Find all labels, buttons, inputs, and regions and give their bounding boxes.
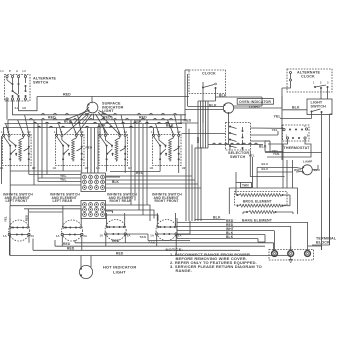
svg-text:2A: 2A	[31, 234, 35, 238]
svg-text:BLK: BLK	[226, 235, 234, 239]
svg-text:H1: H1	[53, 166, 57, 170]
svg-text:H2: H2	[23, 106, 27, 110]
svg-text:BLK: BLK	[259, 145, 267, 149]
svg-text:RED: RED	[48, 116, 56, 120]
svg-text:YEL: YEL	[274, 115, 282, 119]
svg-text:LEFT REAR: LEFT REAR	[53, 199, 73, 203]
svg-text:RIGHT FRONT: RIGHT FRONT	[155, 199, 179, 203]
svg-text:H2: H2	[128, 166, 132, 170]
svg-text:H2: H2	[85, 166, 89, 170]
svg-text:1A: 1A	[150, 233, 154, 237]
svg-text:L1: L1	[54, 130, 58, 134]
svg-text:H1: H1	[150, 166, 154, 170]
svg-text:BLK: BLK	[134, 120, 142, 124]
svg-text:BLU: BLU	[262, 167, 269, 171]
svg-text:THERMOSTAT: THERMOSTAT	[284, 146, 311, 150]
svg-text:SWITCH: SWITCH	[230, 155, 246, 159]
svg-text:1A: 1A	[99, 233, 103, 237]
svg-text:RED: RED	[139, 116, 147, 120]
svg-text:RED: RED	[67, 246, 75, 250]
svg-text:RED: RED	[112, 239, 120, 243]
svg-text:L1: L1	[151, 130, 155, 134]
svg-text:H2: H2	[182, 166, 186, 170]
svg-text:BLK: BLK	[112, 180, 120, 184]
svg-text:BLOCK: BLOCK	[316, 241, 330, 245]
svg-text:OVEN INDICATOR: OVEN INDICATOR	[239, 100, 271, 104]
svg-text:RIGHT REAR: RIGHT REAR	[110, 199, 132, 203]
svg-text:LEFT FRONT: LEFT FRONT	[6, 199, 28, 203]
svg-text:L1: L1	[1, 69, 5, 73]
svg-text:RED: RED	[184, 119, 192, 123]
svg-text:SWITCH: SWITCH	[33, 81, 49, 85]
svg-text:BLU: BLU	[262, 162, 269, 166]
svg-text:YEL: YEL	[60, 178, 67, 182]
svg-text:TAN: TAN	[140, 235, 146, 239]
svg-text:LIGHT: LIGHT	[102, 109, 114, 113]
svg-text:LIGHT: LIGHT	[113, 270, 126, 275]
svg-text:FAN: FAN	[149, 241, 155, 245]
svg-text:BROIL ELEMENT: BROIL ELEMENT	[243, 199, 272, 203]
svg-text:P: P	[9, 69, 11, 73]
svg-text:BLK: BLK	[292, 106, 300, 110]
svg-text:RED: RED	[86, 145, 93, 149]
svg-text:L2: L2	[23, 69, 27, 73]
svg-text:RED: RED	[63, 92, 71, 96]
svg-text:A1: A1	[15, 106, 19, 110]
svg-text:CLOCK: CLOCK	[301, 75, 315, 79]
svg-text:1A: 1A	[56, 234, 60, 238]
svg-text:2A: 2A	[83, 234, 87, 238]
svg-text:YEL: YEL	[249, 153, 255, 157]
svg-text:SWITCH: SWITCH	[311, 105, 327, 109]
svg-text:H1: H1	[0, 166, 4, 170]
svg-text:RANGE.: RANGE.	[176, 268, 192, 273]
svg-text:A: A	[16, 69, 18, 73]
svg-text:L1: L1	[1, 130, 5, 134]
svg-text:LAMP: LAMP	[303, 159, 312, 163]
svg-text:BAKE ELEMENT: BAKE ELEMENT	[242, 218, 273, 222]
svg-text:YEL: YEL	[4, 216, 8, 222]
svg-text:RED: RED	[116, 252, 124, 256]
svg-text:CLOCK: CLOCK	[202, 72, 216, 76]
svg-text:YEL: YEL	[272, 128, 278, 132]
svg-text:1A: 1A	[3, 234, 7, 238]
svg-text:TAN: TAN	[242, 184, 249, 188]
svg-text:BLK: BLK	[213, 215, 221, 219]
